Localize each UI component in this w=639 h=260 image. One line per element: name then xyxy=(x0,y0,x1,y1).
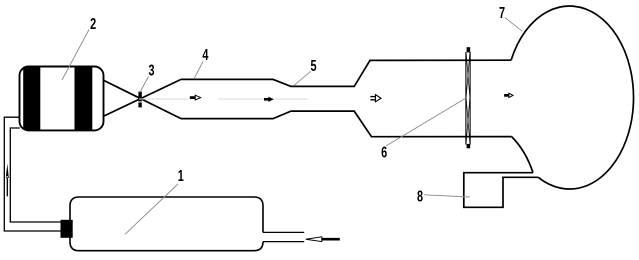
centerline (light gray axis) xyxy=(139,98,308,100)
flow arrow 1 (in section 4) xyxy=(190,95,201,100)
screen 6 weave pattern xyxy=(466,53,470,144)
vacuum chamber 7 (large ellipse, main arc) xyxy=(511,6,633,189)
screen 6 left vertical xyxy=(465,52,467,145)
up arrow in pipe xyxy=(6,164,9,197)
svg-text:8: 8 xyxy=(417,187,423,205)
svg-text:4: 4 xyxy=(202,46,208,64)
screen 6 right vertical xyxy=(469,52,471,145)
svg-text:6: 6 xyxy=(381,144,387,162)
pump port box 8 (with step to chamber) xyxy=(464,173,538,208)
pipe from tank 1 right side xyxy=(263,231,304,233)
duct top wall (sections 4,5 and chamber inlet) xyxy=(181,60,511,86)
cylinder 2 left black band xyxy=(23,66,40,132)
leader line for label 7 xyxy=(505,18,522,32)
flow arrow 3 (open double arrow in expansion) xyxy=(370,95,381,102)
flow arrow 2 (in section 4 right) xyxy=(264,97,273,101)
screen 6 bottom cap xyxy=(467,144,471,148)
leader line for label 2 xyxy=(62,30,89,81)
wire pipe outer line (cylinder 2 to tank 1) xyxy=(4,117,61,231)
leader line for label 6 xyxy=(386,98,466,146)
tank 1 (bottom reservoir vessel) xyxy=(70,197,263,251)
duct bottom wall (sections 4,5 and chamber inlet) xyxy=(181,111,512,137)
leader line for label 8 xyxy=(424,195,470,197)
vacuum chamber 7 lower-left arc xyxy=(512,137,533,173)
leader line for label 5 xyxy=(294,71,311,86)
inlet arrow (left pointing) at tank right pipe xyxy=(306,237,340,242)
cone line upper (cylinder to throat, crossing) xyxy=(104,81,181,119)
wire pipe inner line (cylinder 2 to tank 1) xyxy=(10,128,61,222)
svg-text:2: 2 xyxy=(90,15,96,33)
flow arrow 4 (before chamber 7) xyxy=(504,93,513,97)
leader line for label 4 xyxy=(194,62,203,79)
cylinder 2 right black band xyxy=(75,66,93,132)
svg-text:1: 1 xyxy=(178,167,184,185)
throat valve 3 (dashed bar) xyxy=(138,92,141,108)
cylinder 2 (striped bottle) xyxy=(20,67,104,131)
tank 1 left cap (black plug) xyxy=(61,220,73,238)
svg-text:5: 5 xyxy=(310,57,316,75)
cone line lower (cylinder to throat, crossing) xyxy=(104,79,181,116)
svg-text:3: 3 xyxy=(148,62,154,80)
leader line for label 3 xyxy=(140,77,149,93)
svg-text:7: 7 xyxy=(499,4,505,22)
leader line for label 1 xyxy=(125,184,178,234)
screen 6 top cap xyxy=(467,47,471,52)
